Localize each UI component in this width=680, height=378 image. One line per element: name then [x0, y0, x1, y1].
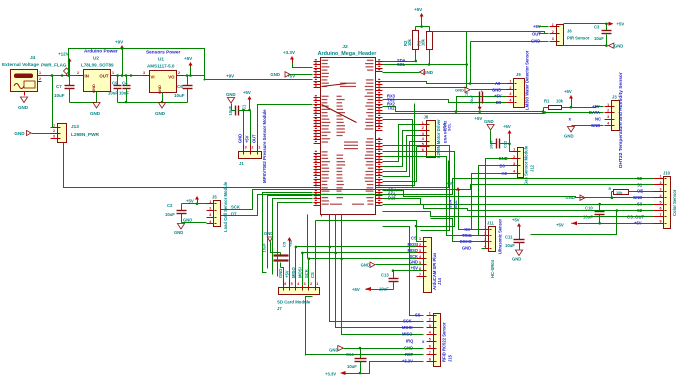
svg-text:1: 1 [429, 312, 431, 316]
svg-text:+5V: +5V [243, 90, 251, 95]
svg-text:HC-SR04: HC-SR04 [490, 259, 495, 278]
label SCL vert [446, 123, 458, 208]
label J9 D0 [496, 100, 502, 105]
svg-text:R3: R3 [416, 40, 421, 46]
wire rail CSOUT [383, 212, 654, 217]
power +12V [58, 52, 72, 76]
label Ultrasonic Sensor [498, 219, 503, 254]
label J9 GND [492, 87, 501, 92]
label Sensors Power [146, 50, 180, 56]
label PIR Sensor [567, 35, 590, 40]
svg-text:GND: GND [614, 43, 623, 48]
capacitor C5 [262, 239, 294, 267]
label External Voltage [2, 62, 39, 68]
power +5V U1 [184, 56, 193, 76]
label J9 ref [516, 72, 521, 77]
wire R3 leg [428, 50, 431, 66]
label J3 ref [612, 95, 617, 100]
svg-text:5: 5 [429, 338, 431, 342]
label LM393 water detector [525, 50, 530, 110]
wire SPI mosi row [295, 246, 423, 249]
header J2 right pins [364, 59, 382, 205]
svg-text:J12: J12 [530, 164, 535, 172]
label Load Cell module [223, 181, 228, 232]
wire J11 trig [479, 235, 482, 237]
svg-text:1: 1 [513, 148, 515, 152]
no-connect J3 NC [569, 117, 572, 122]
svg-text:2: 2 [77, 71, 79, 75]
label J3 +5V [592, 104, 600, 109]
wire gnd rail U2 [70, 92, 97, 103]
svg-text:Arduino_Mega_Header: Arduino_Mega_Header [318, 51, 378, 57]
svg-text:+5V: +5V [564, 89, 572, 94]
ground C3 [608, 43, 623, 48]
wire scl vertical [383, 152, 455, 228]
wire J13 long gnd [64, 143, 449, 188]
ground J3 [564, 127, 575, 139]
svg-text:8: 8 [429, 358, 431, 362]
svg-text:SS: SS [415, 313, 421, 318]
svg-text:GND: GND [238, 134, 243, 143]
svg-text:Sensors Power: Sensors Power [146, 50, 180, 56]
svg-text:Color Sensor: Color Sensor [672, 189, 677, 216]
label J14 ref [437, 277, 442, 285]
ground under U2 [90, 103, 101, 117]
svg-text:J8: J8 [424, 115, 429, 120]
svg-text:SCK: SCK [403, 319, 412, 324]
ground C14 [329, 346, 343, 353]
svg-text:2: 2 [513, 155, 515, 159]
label U2 [93, 56, 99, 62]
svg-text:C3: C3 [594, 25, 600, 30]
svg-text:VI: VI [151, 75, 155, 80]
svg-text:J10: J10 [663, 171, 671, 176]
power +5V J10 [556, 221, 654, 227]
svg-text:2: 2 [251, 146, 253, 150]
svg-text:3: 3 [509, 92, 511, 96]
label SD Card Module [277, 300, 311, 305]
svg-text:J5: J5 [212, 195, 217, 200]
ground J14 [361, 262, 423, 267]
svg-text:GND: GND [565, 195, 575, 200]
svg-text:+5V: +5V [411, 266, 419, 271]
wire RFID mosi [336, 215, 424, 328]
wire C3 bottom [564, 44, 608, 47]
svg-text:GND: GND [278, 269, 283, 278]
svg-text:GND: GND [404, 345, 413, 350]
svg-text:10uF: 10uF [489, 139, 494, 149]
svg-text:10uF: 10uF [174, 93, 185, 98]
flag PWR_FLAG [41, 63, 70, 76]
svg-text:10uF: 10uF [469, 94, 474, 104]
svg-text:GND: GND [90, 111, 101, 116]
label RFID RC522 Sensor [442, 322, 447, 362]
wire U2 out [116, 74, 149, 77]
label AMS1117-5.0 [147, 64, 175, 69]
svg-text:C6: C6 [177, 84, 183, 89]
svg-text:GND: GND [91, 84, 96, 93]
svg-text:IN: IN [85, 74, 89, 79]
svg-text:+5V: +5V [512, 218, 520, 223]
capacitor C1 [228, 104, 247, 115]
svg-text:C14: C14 [346, 352, 354, 357]
header J2 inner pin names [330, 83, 364, 205]
svg-text:2: 2 [39, 77, 41, 81]
svg-text:3: 3 [304, 282, 306, 286]
blue labels J8 [443, 121, 448, 143]
svg-text:L298N_PWR: L298N_PWR [71, 132, 100, 138]
regulator U1 [143, 71, 184, 94]
wire J11 gnd [482, 227, 486, 249]
wire RFID ss [383, 227, 424, 316]
svg-text:3: 3 [53, 135, 55, 139]
label gas GND [499, 156, 508, 161]
label gas A0 [502, 171, 508, 176]
svg-text:10uF: 10uF [119, 91, 129, 96]
svg-text:7: 7 [429, 351, 431, 355]
blue labels right of header c [388, 188, 397, 201]
capacitor C14 [346, 349, 367, 375]
svg-text:U2: U2 [93, 56, 99, 62]
wire U1 out [184, 74, 206, 80]
label L298N Motor Driver [436, 119, 441, 158]
wire rail S3 [383, 191, 586, 198]
svg-text:C12: C12 [503, 141, 508, 148]
svg-text:7: 7 [659, 213, 661, 217]
svg-text:DATA: DATA [589, 110, 600, 115]
svg-text:2: 2 [429, 318, 431, 322]
wire gas a0 [472, 174, 511, 230]
label Gas Sensor Module [524, 145, 529, 185]
svg-text:LM393 Water Detector Sensor: LM393 Water Detector Sensor [525, 50, 530, 110]
mega header J2 box [321, 58, 376, 215]
svg-text:10k: 10k [616, 190, 623, 195]
svg-text:2: 2 [552, 30, 554, 34]
label MPXV7002 module [262, 109, 267, 183]
label +5V pin J1 [245, 135, 250, 143]
ground J10 [565, 195, 653, 200]
svg-text:2: 2 [659, 181, 661, 185]
svg-text:GND: GND [226, 92, 236, 97]
label J11 ECHO [460, 239, 473, 244]
svg-text:+5V: +5V [245, 135, 250, 143]
svg-text:+5V: +5V [503, 124, 511, 129]
svg-text:2: 2 [419, 243, 421, 247]
wire gnd rail U1 [118, 93, 188, 104]
svg-text:2: 2 [209, 207, 211, 211]
svg-text:MOSI: MOSI [408, 242, 418, 247]
label J12 ref [530, 164, 535, 172]
svg-text:10uF: 10uF [347, 364, 357, 369]
connector J11 [482, 226, 496, 252]
label U1 [158, 57, 164, 63]
svg-text:3: 3 [607, 115, 609, 119]
svg-text:VO: VO [168, 75, 175, 80]
wire SD MOSI [273, 199, 313, 286]
svg-text:2: 2 [607, 109, 609, 113]
capacitor C8 [480, 91, 483, 104]
connector J6 [550, 23, 564, 46]
svg-text:J9: J9 [516, 72, 521, 77]
svg-text:3: 3 [419, 249, 421, 253]
svg-text:GND: GND [361, 262, 370, 267]
svg-text:+5V: +5V [592, 104, 600, 109]
wire RFID miso [342, 215, 424, 335]
svg-text:C2: C2 [167, 203, 173, 208]
svg-text:TX2: TX2 [387, 106, 395, 111]
svg-text:+5V: +5V [352, 287, 360, 292]
label J11 GND [462, 245, 471, 250]
svg-text:+3.3V: +3.3V [325, 372, 336, 377]
svg-text:1: 1 [316, 282, 318, 286]
power +5V rail tap [475, 104, 483, 121]
svg-text:1: 1 [112, 71, 114, 75]
wire rail S2 [383, 199, 654, 205]
power +5V J5 [186, 196, 207, 205]
label J5 ref [212, 195, 217, 200]
wire J3 gnd [572, 125, 604, 127]
labels J10 nets [627, 176, 644, 226]
svg-text:External Voltage: External Voltage [2, 62, 39, 68]
svg-text:GND: GND [183, 218, 192, 223]
regulator U2 [77, 70, 118, 93]
svg-text:+5V: +5V [475, 116, 483, 121]
svg-text:RST: RST [405, 352, 414, 357]
connector J7 SD [279, 280, 320, 295]
label J8 [424, 115, 429, 120]
capacitor C11 [505, 218, 525, 262]
label J4 [30, 55, 36, 61]
label J14 MISO [408, 248, 419, 253]
connector J9 [507, 79, 525, 108]
wire rail +5V mid [383, 107, 545, 113]
no-connect J15 IRQ [422, 339, 425, 344]
label Color Sensor [672, 189, 677, 216]
resistor R4 [609, 187, 654, 199]
svg-text:Arduino Power: Arduino Power [84, 49, 118, 55]
svg-text:10uF: 10uF [228, 105, 233, 115]
svg-text:GND: GND [484, 119, 494, 124]
svg-text:+5V: +5V [288, 239, 293, 247]
label J6 ref [567, 28, 572, 33]
label Arduino_Mega_Header [318, 51, 378, 57]
ground label J13 [14, 130, 50, 135]
svg-text:10uF: 10uF [165, 212, 175, 217]
label J11 +5V [463, 227, 471, 232]
wire top loop [67, 47, 312, 79]
wire J13 pin1 [51, 74, 54, 127]
svg-text:3: 3 [429, 324, 431, 328]
svg-text:10uF: 10uF [108, 91, 118, 96]
svg-text:L78L09_SOT89: L78L09_SOT89 [81, 63, 114, 68]
svg-text:SCL: SCL [446, 123, 451, 131]
connector J13 [51, 124, 67, 143]
svg-text:OUT: OUT [252, 134, 257, 143]
svg-text:MOSI: MOSI [298, 267, 303, 278]
wire C3 gnd link [471, 41, 549, 43]
svg-text:GND: GND [423, 70, 434, 75]
resistor R3 [416, 32, 432, 50]
wire row99 [383, 100, 507, 103]
wire scl row [383, 64, 467, 66]
svg-text:2: 2 [178, 71, 180, 75]
capacitor C4 [108, 76, 131, 103]
svg-text:GND: GND [512, 257, 521, 262]
svg-text:Ultrasonic Sensor: Ultrasonic Sensor [498, 219, 503, 254]
svg-text:+5V: +5V [184, 56, 192, 61]
svg-text:6: 6 [284, 282, 286, 286]
svg-text:J1: J1 [239, 161, 244, 166]
svg-text:+9V: +9V [115, 40, 123, 45]
svg-text:IRQ: IRQ [406, 339, 414, 344]
svg-text:GND: GND [14, 131, 25, 136]
svg-text:J3: J3 [612, 95, 617, 100]
svg-text:10k: 10k [556, 99, 564, 104]
svg-text:GND: GND [455, 87, 464, 92]
svg-text:D0: D0 [496, 100, 502, 105]
power +5V C1 [239, 90, 252, 111]
svg-text:+12V: +12V [58, 52, 69, 57]
label J11 ref [487, 220, 494, 225]
svg-text:R: R [609, 187, 612, 191]
label Arduino Power [84, 49, 118, 55]
svg-text:OUT: OUT [99, 74, 108, 79]
ground under U1 [155, 103, 166, 117]
svg-text:J11: J11 [487, 220, 494, 225]
power +5V R2R3 [414, 7, 424, 27]
svg-text:6: 6 [429, 344, 431, 348]
wire SD CS [263, 193, 316, 286]
svg-text:10uF: 10uF [594, 36, 604, 41]
svg-text:AMS1117-5.0: AMS1117-5.0 [147, 64, 175, 69]
svg-text:1: 1 [607, 103, 609, 107]
wire SCK long [221, 185, 654, 210]
svg-text:GND: GND [462, 245, 471, 250]
svg-text:MOSI: MOSI [402, 325, 412, 330]
svg-text:GND: GND [155, 111, 166, 116]
svg-text:+5V: +5V [494, 94, 502, 99]
svg-text:8: 8 [659, 220, 661, 224]
svg-text:2: 2 [310, 282, 312, 286]
label GND pin J1 [238, 134, 243, 143]
header J2 left pins [314, 59, 331, 205]
wire RFID sck [330, 215, 424, 322]
wire rail data [383, 111, 604, 114]
svg-text:3: 3 [659, 188, 661, 192]
label J14 SCK [409, 254, 418, 259]
svg-text:CS: CS [310, 272, 315, 278]
wire DHT +5V row [572, 107, 604, 108]
label L78L09_SOT89 [81, 63, 114, 68]
svg-text:GND: GND [270, 72, 280, 77]
capacitor C3 [594, 24, 612, 46]
svg-text:3: 3 [422, 132, 424, 136]
wire gnd row RFID [344, 347, 424, 350]
svg-text:C11: C11 [505, 235, 513, 240]
wire J11 5v [446, 181, 482, 230]
label J3 NC [595, 116, 601, 121]
svg-text:3: 3 [209, 213, 211, 217]
capacitor C6 [174, 76, 193, 103]
ground label J9 [455, 87, 506, 92]
label J2 [342, 44, 348, 50]
connector J5 [207, 200, 221, 227]
label gas D0 [500, 164, 506, 169]
svg-text:MISO: MISO [402, 332, 413, 337]
capacitor C2 [165, 203, 198, 223]
svg-text:10uF: 10uF [505, 243, 515, 248]
svg-text:RFID RC522 Sensor: RFID RC522 Sensor [442, 322, 447, 362]
header J2 diagonals [322, 84, 357, 123]
wire SPI miso row [301, 252, 422, 255]
svg-text:GND: GND [329, 347, 338, 352]
power +5V J14 [352, 287, 394, 292]
label J9 A0 [495, 81, 501, 86]
svg-text:+5V: +5V [617, 22, 625, 27]
connector J12 [511, 148, 524, 178]
wire J14 cs [308, 215, 423, 259]
wire RFID rst [306, 297, 424, 356]
wire J11 echo [431, 219, 482, 242]
power +3.3V header [283, 50, 313, 68]
wire J8 feeds [383, 125, 420, 186]
wire J1 pins [242, 105, 312, 145]
wire rail S2b [383, 205, 654, 211]
svg-text:Load Cell Sensor Module: Load Cell Sensor Module [223, 181, 228, 232]
svg-text:1: 1 [422, 121, 424, 125]
svg-text:SCK: SCK [409, 254, 418, 259]
label J5 DT [231, 211, 237, 216]
connector J8 [420, 121, 436, 158]
svg-text:10uF: 10uF [54, 93, 65, 98]
svg-text:L298N Motor Driver: L298N Motor Driver [436, 119, 441, 158]
svg-text:SCL: SCL [453, 200, 458, 208]
label J11 TRIG [462, 233, 472, 238]
wire row87 [383, 87, 467, 89]
connector J1 pressure [239, 145, 262, 159]
wire S2 branch [531, 209, 619, 234]
svg-text:1: 1 [419, 237, 421, 241]
svg-text:J15: J15 [448, 354, 453, 362]
wire sda row [383, 61, 416, 63]
power +5V gas [500, 124, 512, 152]
wire row93 [455, 97, 507, 113]
label J3 DATA [589, 110, 600, 115]
svg-text:GND: GND [157, 85, 162, 94]
resistor R1 [544, 99, 573, 113]
capacitor C10 [583, 203, 605, 225]
svg-text:R1: R1 [544, 99, 550, 104]
svg-text:PWR_FLAG: PWR_FLAG [41, 63, 67, 68]
label J6 OUT [532, 31, 541, 36]
capacitor C13 [379, 269, 399, 291]
capacitor C7 [54, 76, 75, 103]
capacitor C9 [112, 76, 122, 103]
wire R2 leg [415, 50, 418, 63]
svg-text:C13: C13 [381, 273, 389, 278]
svg-text:C10: C10 [585, 206, 593, 211]
label +9V net [226, 74, 234, 79]
svg-text:U1: U1 [158, 57, 164, 63]
label J9 +5V [494, 94, 502, 99]
svg-text:+3.3V: +3.3V [283, 50, 295, 55]
wire J5 gnd [182, 218, 207, 223]
svg-text:+5V: +5V [186, 199, 194, 204]
label ArduCAM [432, 252, 437, 290]
svg-text:J14: J14 [437, 277, 442, 285]
svg-text:+5V: +5V [285, 270, 290, 278]
svg-text:3: 3 [143, 71, 145, 75]
